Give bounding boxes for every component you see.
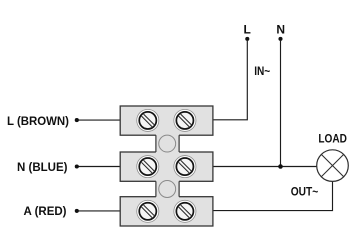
svg-text:OUT~: OUT~	[291, 185, 319, 199]
svg-text:LOAD: LOAD	[318, 132, 347, 146]
svg-text:L: L	[244, 23, 251, 37]
svg-text:N: N	[276, 23, 285, 37]
svg-text:A (RED): A (RED)	[24, 204, 67, 218]
svg-text:L (BROWN): L (BROWN)	[7, 114, 69, 128]
svg-text:IN~: IN~	[254, 64, 270, 78]
svg-text:N (BLUE): N (BLUE)	[17, 160, 68, 174]
